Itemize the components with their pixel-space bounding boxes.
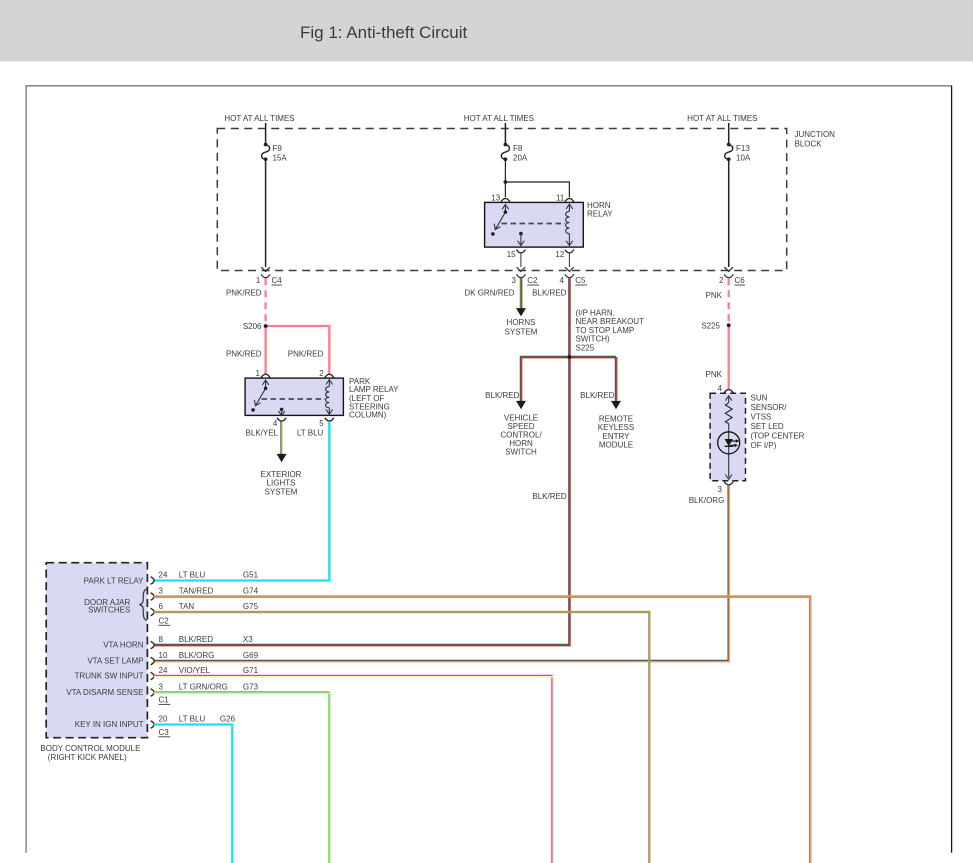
- svg-text:VTA DISARM SENSE: VTA DISARM SENSE: [66, 688, 143, 697]
- svg-text:F8: F8: [513, 144, 523, 153]
- fuse F9 15A: [262, 143, 288, 163]
- svg-text:5: 5: [319, 419, 324, 428]
- wire feed F13 top: [728, 123, 730, 143]
- park relay coil: [326, 380, 333, 415]
- connector pin 15: [507, 250, 526, 259]
- park relay pin 4 contact: [278, 408, 285, 416]
- junction block dashed box: [217, 129, 786, 271]
- wire F8 down to junction: [504, 159, 506, 182]
- svg-text:LT GRN/ORG: LT GRN/ORG: [179, 683, 228, 692]
- svg-text:F9: F9: [273, 144, 283, 153]
- connector BCM pin 10 (C1): [151, 657, 155, 665]
- connector BCM pin 24 (C2): [151, 577, 155, 585]
- svg-text:RELAY: RELAY: [587, 210, 613, 219]
- svg-text:3: 3: [718, 485, 723, 494]
- wire F9 to C4: [265, 159, 267, 267]
- wire VIO/YEL row 6: [154, 675, 552, 863]
- svg-text:OF I/P): OF I/P): [751, 441, 777, 450]
- svg-text:S206: S206: [243, 322, 262, 331]
- wire TAN row 3: [154, 612, 650, 863]
- svg-text:3: 3: [159, 587, 164, 596]
- svg-text:LT BLU: LT BLU: [179, 715, 206, 724]
- svg-text:LAMP RELAY: LAMP RELAY: [349, 385, 399, 394]
- connector sun sensor pin 4: [718, 384, 734, 393]
- svg-text:2: 2: [319, 369, 324, 378]
- svg-text:G69: G69: [243, 651, 259, 660]
- svg-text:15: 15: [507, 250, 516, 259]
- wire BLK/RED C5 to S225 down to BCM row 4: [154, 278, 569, 644]
- svg-text:EXTERIOR: EXTERIOR: [261, 470, 302, 479]
- svg-text:BLK/RED: BLK/RED: [179, 635, 213, 644]
- wire resistor to LED: [728, 424, 730, 432]
- park relay switch: [251, 380, 269, 412]
- connector relay pin 5: [319, 418, 334, 428]
- svg-text:BLK/RED: BLK/RED: [532, 289, 566, 298]
- svg-text:BODY CONTROL MODULE: BODY CONTROL MODULE: [40, 744, 140, 753]
- wire F13 to C6: [728, 159, 730, 267]
- fuse F13 10A: [725, 143, 751, 163]
- BCM internal labels: [66, 577, 144, 730]
- connector C6 pin 2: [719, 274, 745, 285]
- svg-text:10: 10: [159, 651, 168, 660]
- relay U1 HORN RELAY box: [485, 201, 614, 247]
- svg-text:KEYLESS: KEYLESS: [598, 423, 634, 432]
- svg-text:COLUMN): COLUMN): [349, 411, 387, 420]
- svg-text:PNK/RED: PNK/RED: [226, 350, 262, 359]
- wire DK GRN/RED C2 to horns: [464, 278, 526, 316]
- svg-text:LT BLU: LT BLU: [179, 571, 206, 580]
- wire LT BLU park relay pin 5 to BCM row 1: [154, 421, 329, 580]
- connector BCM pin 6 (C2): [151, 608, 155, 616]
- svg-text:(I/P HARN,: (I/P HARN,: [576, 309, 615, 318]
- svg-text:VIO/YEL: VIO/YEL: [179, 666, 211, 675]
- connector BCM pin 3 (C2): [151, 593, 155, 601]
- connector C2 pin 3: [512, 274, 539, 285]
- svg-text:C2: C2: [159, 616, 170, 625]
- wire PNK dashed C6 to S225: [706, 278, 729, 323]
- svg-text:4: 4: [560, 276, 565, 285]
- node S225 junction dot: [568, 355, 572, 359]
- svg-text:(TOP CENTER: (TOP CENTER: [751, 431, 805, 440]
- wire BLK/ORG sun sensor to BCM row 5: [154, 486, 730, 662]
- svg-text:1: 1: [256, 276, 261, 285]
- svg-text:3: 3: [159, 683, 164, 692]
- horn relay dashed linkage: [502, 223, 566, 225]
- horn relay coil: [566, 204, 573, 245]
- wire LT GRN/ORG row 7: [154, 692, 329, 863]
- connector BCM pin 20 (C3): [151, 721, 155, 729]
- svg-text:4: 4: [718, 384, 723, 393]
- svg-text:4: 4: [273, 419, 278, 428]
- svg-text:BLK/YEL: BLK/YEL: [246, 429, 279, 438]
- wire PNK/RED dashed C4 to S206: [264, 278, 266, 324]
- svg-text:G71: G71: [243, 666, 259, 675]
- svg-text:13: 13: [491, 194, 500, 203]
- svg-text:LIGHTS: LIGHTS: [267, 479, 296, 488]
- arrow into C4: [261, 267, 270, 271]
- node REMOTE KEYLESS ENTRY MODULE: [598, 415, 634, 450]
- svg-text:LT BLU: LT BLU: [297, 429, 324, 438]
- connector relay pin 1: [256, 369, 271, 378]
- svg-text:SYSTEM: SYSTEM: [265, 487, 298, 496]
- svg-text:BLK/ORG: BLK/ORG: [179, 651, 215, 660]
- node S206 junction dot: [264, 324, 268, 328]
- connector relay pin 2: [319, 369, 334, 378]
- relay K1 PARK LAMP RELAY box: [245, 377, 399, 419]
- wire PNK S225 to sun sensor pin 4: [706, 325, 729, 389]
- svg-text:G74: G74: [243, 587, 259, 596]
- svg-text:DK GRN/RED: DK GRN/RED: [464, 289, 514, 298]
- wire LT BLU row 8: [154, 725, 233, 863]
- svg-text:SET LED: SET LED: [751, 422, 784, 431]
- svg-text:JUNCTION: JUNCTION: [795, 130, 836, 139]
- wire feed F9 top: [265, 123, 267, 143]
- svg-text:15A: 15A: [273, 154, 288, 163]
- wire pin 12 to C5: [568, 253, 570, 267]
- svg-text:2: 2: [719, 276, 724, 285]
- connector C4 pin 1: [256, 274, 282, 285]
- svg-text:KEY IN IGN INPUT: KEY IN IGN INPUT: [75, 720, 144, 729]
- connector BCM pin 24 (C1): [151, 672, 155, 680]
- svg-text:ENTRY: ENTRY: [603, 432, 631, 441]
- svg-text:10A: 10A: [736, 154, 751, 163]
- wire BLK/YEL to exterior lights: [246, 421, 287, 462]
- svg-text:G73: G73: [243, 683, 259, 692]
- svg-text:1: 1: [256, 369, 261, 378]
- arrow into C2: [517, 267, 526, 271]
- svg-text:HORN: HORN: [587, 201, 611, 210]
- svg-text:PNK/RED: PNK/RED: [226, 289, 262, 298]
- svg-text:PARK LT RELAY: PARK LT RELAY: [84, 577, 145, 586]
- svg-text:SWITCH: SWITCH: [505, 448, 537, 457]
- svg-text:C6: C6: [735, 276, 746, 285]
- sun sensor input arrow: [725, 396, 732, 403]
- svg-text:G51: G51: [243, 571, 259, 580]
- node EXTERIOR LIGHTS SYSTEM: [261, 470, 302, 496]
- node HORNS SYSTEM: [505, 318, 538, 336]
- svg-text:BLOCK: BLOCK: [795, 139, 823, 148]
- LED D1: [718, 432, 740, 454]
- svg-text:HOT AT ALL TIMES: HOT AT ALL TIMES: [687, 114, 757, 123]
- svg-text:X3: X3: [243, 635, 253, 644]
- svg-text:8: 8: [159, 635, 164, 644]
- junction block label: [795, 130, 836, 149]
- svg-text:C4: C4: [272, 276, 283, 285]
- wire pin 15 to C2: [520, 253, 522, 267]
- svg-text:6: 6: [159, 602, 164, 611]
- horn relay pin 15 contact: [518, 232, 525, 246]
- svg-text:HOT AT ALL TIMES: HOT AT ALL TIMES: [464, 114, 534, 123]
- svg-text:S225: S225: [576, 343, 595, 352]
- svg-text:PNK: PNK: [706, 291, 723, 300]
- svg-text:C3: C3: [159, 728, 170, 737]
- wire BLK/RED branch to vehicle speed control: [485, 356, 569, 409]
- svg-text:Fig 1: Anti-theft Circuit: Fig 1: Anti-theft Circuit: [300, 23, 468, 42]
- connector relay pin 4: [273, 418, 286, 428]
- svg-text:S225: S225: [701, 322, 720, 331]
- svg-text:HORNS: HORNS: [507, 318, 536, 327]
- svg-text:NEAR BREAKOUT: NEAR BREAKOUT: [576, 317, 645, 326]
- svg-text:SENSOR/: SENSOR/: [751, 403, 788, 412]
- wire LED to pin 3: [725, 454, 732, 480]
- svg-text:11: 11: [556, 194, 565, 203]
- svg-text:G26: G26: [220, 715, 236, 724]
- connector sun sensor pin 3: [718, 482, 734, 494]
- connector C5 pin 4: [560, 274, 587, 285]
- wire PNK/RED S206 branch to relay pin 2: [266, 326, 330, 374]
- connector pin 13: [491, 194, 510, 203]
- svg-text:VTSS: VTSS: [751, 412, 772, 421]
- svg-text:SYSTEM: SYSTEM: [505, 327, 538, 336]
- svg-text:(RIGHT KICK PANEL): (RIGHT KICK PANEL): [48, 753, 127, 762]
- svg-text:TAN/RED: TAN/RED: [179, 587, 214, 596]
- svg-text:G75: G75: [243, 602, 259, 611]
- svg-text:MODULE: MODULE: [599, 441, 633, 450]
- wire BLK/RED branch to remote keyless entry: [569, 356, 621, 409]
- svg-text:VTA SET LAMP: VTA SET LAMP: [87, 657, 143, 666]
- header bar: [0, 0, 973, 62]
- svg-text:PNK/RED: PNK/RED: [288, 350, 324, 359]
- svg-text:BLK/RED: BLK/RED: [580, 391, 614, 400]
- wire branch to pin 11: [505, 182, 569, 197]
- svg-text:REMOTE: REMOTE: [599, 415, 633, 424]
- svg-text:20: 20: [159, 715, 168, 724]
- svg-text:C1: C1: [159, 695, 170, 704]
- connector pin 12: [555, 250, 574, 259]
- node S225 junction dot on PNK: [727, 323, 731, 327]
- svg-text:F13: F13: [736, 144, 750, 153]
- note I/P HARN S225: [576, 309, 645, 353]
- svg-text:SWITCHES: SWITCHES: [88, 606, 130, 615]
- wire to pin 13: [504, 182, 506, 197]
- arrow into C5: [565, 267, 574, 271]
- svg-text:TO STOP LAMP: TO STOP LAMP: [576, 326, 635, 335]
- svg-text:TRUNK SW INPUT: TRUNK SW INPUT: [75, 672, 144, 681]
- wire TAN/RED row 2: [154, 596, 811, 863]
- arrow into C6: [724, 267, 733, 271]
- wire PNK/RED S206 to relay pin 1: [226, 326, 266, 374]
- BCM row labels: [159, 571, 259, 737]
- svg-text:BLK/RED: BLK/RED: [485, 391, 519, 400]
- resistor in sun sensor: [725, 403, 732, 424]
- connector BCM pin 3 (C1): [151, 689, 155, 697]
- svg-text:TAN: TAN: [179, 602, 195, 611]
- module BODY CONTROL MODULE box: [40, 563, 147, 762]
- brace door ajar: [139, 589, 146, 620]
- horn relay switch: [491, 205, 509, 236]
- fuse F8 20A: [501, 143, 528, 163]
- svg-text:C2: C2: [527, 276, 538, 285]
- svg-text:BLK/RED: BLK/RED: [532, 492, 566, 501]
- svg-text:C5: C5: [575, 276, 586, 285]
- svg-text:24: 24: [159, 571, 168, 580]
- svg-text:VTA HORN: VTA HORN: [103, 641, 144, 650]
- node F8 branch junction: [504, 180, 508, 184]
- svg-text:SUN: SUN: [751, 393, 768, 402]
- svg-text:PNK: PNK: [706, 370, 723, 379]
- node VEHICLE SPEED CONTROL HORN SWITCH: [500, 414, 542, 457]
- connector pin 11: [556, 194, 574, 203]
- svg-text:BLK/ORG: BLK/ORG: [689, 496, 725, 505]
- connector BCM pin 8 (C1): [151, 641, 155, 649]
- svg-text:SWITCH): SWITCH): [576, 335, 611, 344]
- svg-text:HOT AT ALL TIMES: HOT AT ALL TIMES: [224, 114, 294, 123]
- module SUN SENSOR VTSS SET LED box: [710, 393, 805, 480]
- svg-text:12: 12: [555, 250, 564, 259]
- svg-text:20A: 20A: [513, 154, 528, 163]
- svg-text:24: 24: [159, 666, 168, 675]
- wire feed F8 top: [504, 123, 506, 143]
- park relay dashed linkage: [262, 398, 326, 400]
- svg-text:3: 3: [512, 276, 517, 285]
